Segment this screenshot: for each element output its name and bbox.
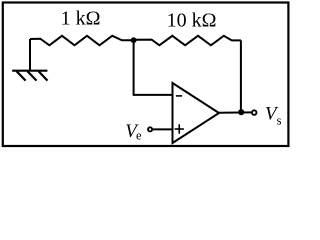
terminal Ve open circle (148, 127, 152, 131)
wire ground lead vertical (29, 39, 31, 71)
wire feedback from node A down and right to inverting input (134, 40, 172, 95)
resistor R1 1 kOhm (30, 36, 134, 46)
op-amp plus sign (non-inverting input) (175, 124, 184, 133)
border frame (3, 3, 289, 147)
ground (12, 71, 47, 81)
svg-text:s: s (277, 114, 282, 128)
svg-text:e: e (136, 129, 142, 143)
svg-text:1 kΩ: 1 kΩ (61, 8, 101, 30)
wire R2 right end down to output node (240, 40, 242, 112)
node B output junction dot (238, 109, 244, 115)
terminal Vs open circle (252, 110, 257, 115)
resistor R2 10 kOhm (134, 36, 241, 46)
wire Ve terminal to plus input (153, 128, 172, 130)
wire op-amp output to Vs terminal (219, 111, 251, 113)
op-amp U1 triangle (173, 83, 220, 143)
op-amp minus sign (inverting input) (176, 95, 182, 97)
svg-text:10 kΩ: 10 kΩ (167, 10, 217, 32)
node A junction dot (R1/R2/inverting input) (131, 37, 137, 43)
